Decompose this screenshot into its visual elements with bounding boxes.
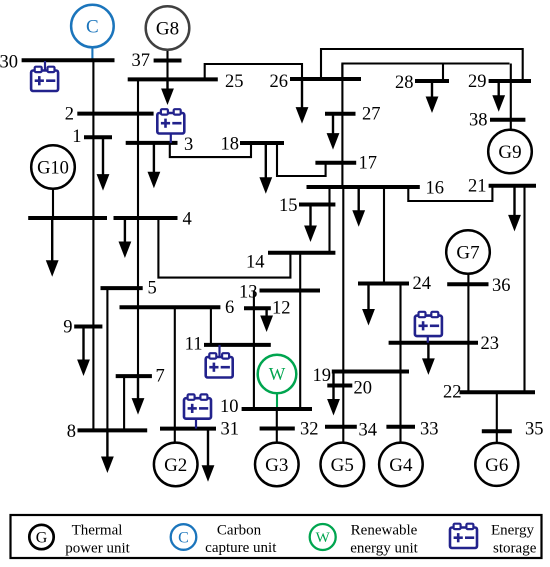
svg-text:1: 1 [72, 127, 81, 147]
wire bus7 to bus8 [123, 376, 125, 430]
thermal unit G5 [321, 443, 365, 487]
svg-text:3: 3 [184, 135, 193, 155]
bus 5 [101, 286, 143, 290]
legend energy storage battery [450, 524, 477, 548]
bus 31 [160, 427, 216, 431]
load arrow at bus 23 [422, 343, 435, 375]
load arrow at bus 21 [508, 186, 521, 232]
bus 34 [325, 425, 357, 429]
svg-text:Energy: Energy [491, 523, 535, 539]
svg-text:21: 21 [468, 177, 487, 197]
svg-text:4: 4 [183, 210, 192, 230]
thermal unit G7 [446, 230, 490, 274]
legend thermal circle G [29, 525, 53, 549]
svg-text:32: 32 [300, 419, 319, 439]
bus 17 [315, 161, 356, 165]
svg-text:28: 28 [395, 73, 414, 93]
bus 22 [460, 390, 536, 394]
energy storage at bus 31 [184, 394, 211, 428]
wire feeder bus25 to bus7 [137, 79, 139, 376]
svg-text:G4: G4 [389, 455, 413, 476]
thermal unit G2 [154, 443, 198, 487]
svg-text:24: 24 [413, 274, 432, 294]
svg-text:22: 22 [443, 382, 462, 402]
bus 25 [128, 77, 218, 81]
load arrow at bus 29 [492, 81, 505, 112]
svg-text:G: G [36, 530, 48, 547]
bus 30 [22, 58, 115, 62]
svg-text:29: 29 [468, 72, 487, 92]
wire bus16 to bus24 [383, 187, 385, 284]
thermal unit G4 [379, 443, 423, 487]
load arrow at bus 19 [327, 372, 340, 416]
bus 2 [77, 112, 153, 116]
load arrow at bus 26 [296, 79, 309, 124]
svg-text:18: 18 [221, 135, 240, 155]
svg-text:7: 7 [156, 366, 165, 386]
svg-text:G10: G10 [37, 158, 69, 178]
bus 23 [389, 341, 478, 345]
svg-text:27: 27 [362, 105, 381, 125]
legend renewable text [350, 523, 418, 557]
svg-text:5: 5 [148, 279, 157, 299]
wire G10 to bus [52, 189, 54, 218]
load arrow at bus 9 [77, 327, 90, 377]
svg-text:36: 36 [492, 276, 511, 296]
svg-text:12: 12 [272, 299, 291, 319]
wire bus26 to bus27 to bus17 to bus16 [341, 64, 343, 188]
bus G10 terminal [28, 216, 107, 220]
wire bus13 to bus12 to bus11 to bus10 [253, 291, 255, 410]
svg-text:26: 26 [270, 72, 289, 92]
renewable unit W [258, 355, 297, 394]
bus 24 [358, 282, 409, 286]
svg-text:9: 9 [63, 318, 72, 338]
svg-text:energy unit: energy unit [350, 541, 418, 557]
svg-text:Renewable: Renewable [351, 523, 418, 539]
thermal unit G9 [488, 130, 532, 174]
wire G7 to bus36 to bus23 to bus22 [467, 274, 469, 393]
wire drop to bus28 [442, 64, 444, 82]
svg-text:C: C [86, 17, 99, 38]
svg-text:33: 33 [420, 420, 439, 440]
bus 11 [204, 343, 271, 347]
bus 28 [415, 79, 449, 83]
bus 14 [268, 251, 335, 255]
svg-text:G5: G5 [331, 455, 354, 476]
svg-text:15: 15 [279, 196, 298, 216]
svg-text:6: 6 [225, 298, 234, 318]
energy storage at bus 11 [206, 345, 233, 378]
wire feeder bus30 to bus8 [92, 60, 94, 430]
carbon capture unit C [71, 5, 114, 48]
wire bus18 to bus17 [277, 143, 326, 176]
svg-text:G9: G9 [498, 142, 521, 163]
svg-text:Thermal: Thermal [72, 523, 123, 539]
wire bus25 to bus26 upper [205, 64, 302, 79]
legend box [11, 515, 542, 558]
svg-text:25: 25 [225, 72, 244, 92]
load arrow at bus 27 [327, 114, 340, 150]
svg-text:35: 35 [525, 420, 544, 440]
wire G8 to bus37 to bus25 [166, 50, 168, 79]
bus 15 [299, 203, 335, 207]
legend renewable circle W [310, 524, 336, 550]
svg-text:13: 13 [239, 282, 258, 302]
bus 35 [482, 429, 512, 433]
load arrow at bus 16 [352, 187, 365, 227]
bus 16 [307, 185, 420, 189]
wire bus16 to bus15 to bus14 [328, 187, 330, 253]
svg-text:G6: G6 [485, 455, 508, 476]
load arrow at bus 12 [260, 308, 273, 332]
bus 12 [244, 306, 271, 310]
bus 33 [386, 425, 415, 429]
svg-text:G3: G3 [265, 455, 288, 476]
svg-text:23: 23 [481, 334, 500, 354]
bus 19 [332, 370, 409, 374]
wire bus26 to bus28 to bus29 upper [342, 64, 509, 80]
svg-text:11: 11 [185, 334, 203, 354]
load arrow at bus G10 [46, 218, 59, 277]
bus 26 [290, 77, 361, 81]
load arrow at bus 18 [259, 143, 272, 194]
svg-text:30: 30 [0, 52, 18, 72]
svg-text:20: 20 [354, 379, 373, 399]
legend carbon circle C [171, 524, 197, 550]
energy storage at bus 30 [31, 61, 58, 91]
svg-text:8: 8 [67, 422, 76, 442]
svg-text:G8: G8 [156, 19, 179, 40]
wire bus16 to bus21 [408, 186, 492, 201]
bus 10 [242, 407, 312, 411]
energy storage at bus 23 [415, 312, 442, 343]
wire bus6 to bus11 [210, 307, 212, 345]
bus 9 [74, 325, 102, 329]
svg-text:power unit: power unit [65, 541, 130, 557]
load arrow at bus 24 [362, 284, 375, 326]
bus 3 [126, 141, 178, 145]
load arrow at bus 25 [161, 79, 174, 105]
load arrow at bus 7 [132, 376, 145, 415]
svg-text:capture unit: capture unit [205, 540, 277, 556]
load arrow at bus 31 [202, 429, 215, 482]
svg-text:14: 14 [246, 253, 265, 273]
legend carbon text [205, 523, 277, 557]
wire bus5 to bus8 [106, 288, 108, 430]
bus 4 [114, 216, 178, 220]
thermal unit G8 [146, 6, 190, 50]
wire bus22 to bus35 to G6 [496, 392, 498, 443]
thermal unit G10 [31, 145, 75, 189]
wire bus14 to bus13 to bus10 [299, 253, 301, 409]
svg-text:10: 10 [220, 397, 239, 417]
wire bus4 to bus14 [158, 218, 290, 278]
load arrow at bus 8 [101, 430, 114, 473]
svg-text:W: W [316, 530, 331, 546]
legend energy storage text [491, 523, 537, 557]
bus 32 [260, 427, 295, 431]
wire bus10 to bus32 to G3 [276, 409, 278, 443]
svg-text:Carbon: Carbon [217, 523, 262, 539]
svg-text:G2: G2 [164, 455, 187, 476]
load arrow at bus 15 [304, 205, 317, 243]
svg-text:G7: G7 [456, 243, 479, 264]
wire W to bus10 [276, 393, 278, 409]
svg-text:19: 19 [313, 366, 332, 386]
thermal unit G6 [475, 443, 518, 486]
svg-text:37: 37 [132, 51, 151, 71]
svg-text:storage: storage [493, 541, 537, 557]
load arrow at bus 1 [97, 137, 110, 190]
bus 1 [84, 135, 112, 139]
svg-text:34: 34 [359, 421, 378, 441]
svg-text:C: C [178, 530, 189, 547]
energy storage at bus 3 [157, 109, 184, 143]
bus 6 [120, 305, 221, 309]
bus 18 [240, 141, 284, 145]
wire top loop bus26 to bus29 [321, 49, 523, 81]
svg-text:2: 2 [65, 104, 74, 124]
svg-text:W: W [269, 364, 286, 384]
svg-text:16: 16 [426, 179, 445, 199]
load arrow at bus 4 [119, 218, 132, 258]
wire bus24 to bus23 to bus19 to bus33 to G4 [399, 284, 401, 443]
bus 8 [78, 428, 148, 432]
wire bus6 to bus31 to G2 [174, 307, 176, 443]
wire bus16 to bus19 to bus20 to bus34 to G5 [342, 187, 344, 443]
bus 38 [490, 118, 525, 122]
legend thermal text [65, 523, 130, 557]
bus 29 [489, 79, 531, 83]
bus 13 [260, 289, 321, 293]
bus 37 [154, 59, 182, 63]
load arrow at bus 3 [148, 143, 161, 188]
wire bus29 to bus38 to G9 [510, 64, 512, 130]
bus 20 [327, 384, 352, 388]
wire C to bus30 [91, 48, 93, 59]
wire bus21 to bus22 [523, 186, 525, 392]
bus 7 [116, 374, 152, 378]
svg-text:31: 31 [221, 419, 240, 439]
svg-text:17: 17 [359, 154, 378, 174]
load arrow at bus 28 [426, 81, 439, 113]
bus 27 [325, 112, 356, 116]
svg-text:38: 38 [469, 111, 488, 131]
wire bus3 to bus18 [170, 143, 251, 157]
bus 36 [447, 282, 488, 286]
bus 21 [489, 184, 536, 188]
thermal unit G3 [255, 443, 299, 487]
